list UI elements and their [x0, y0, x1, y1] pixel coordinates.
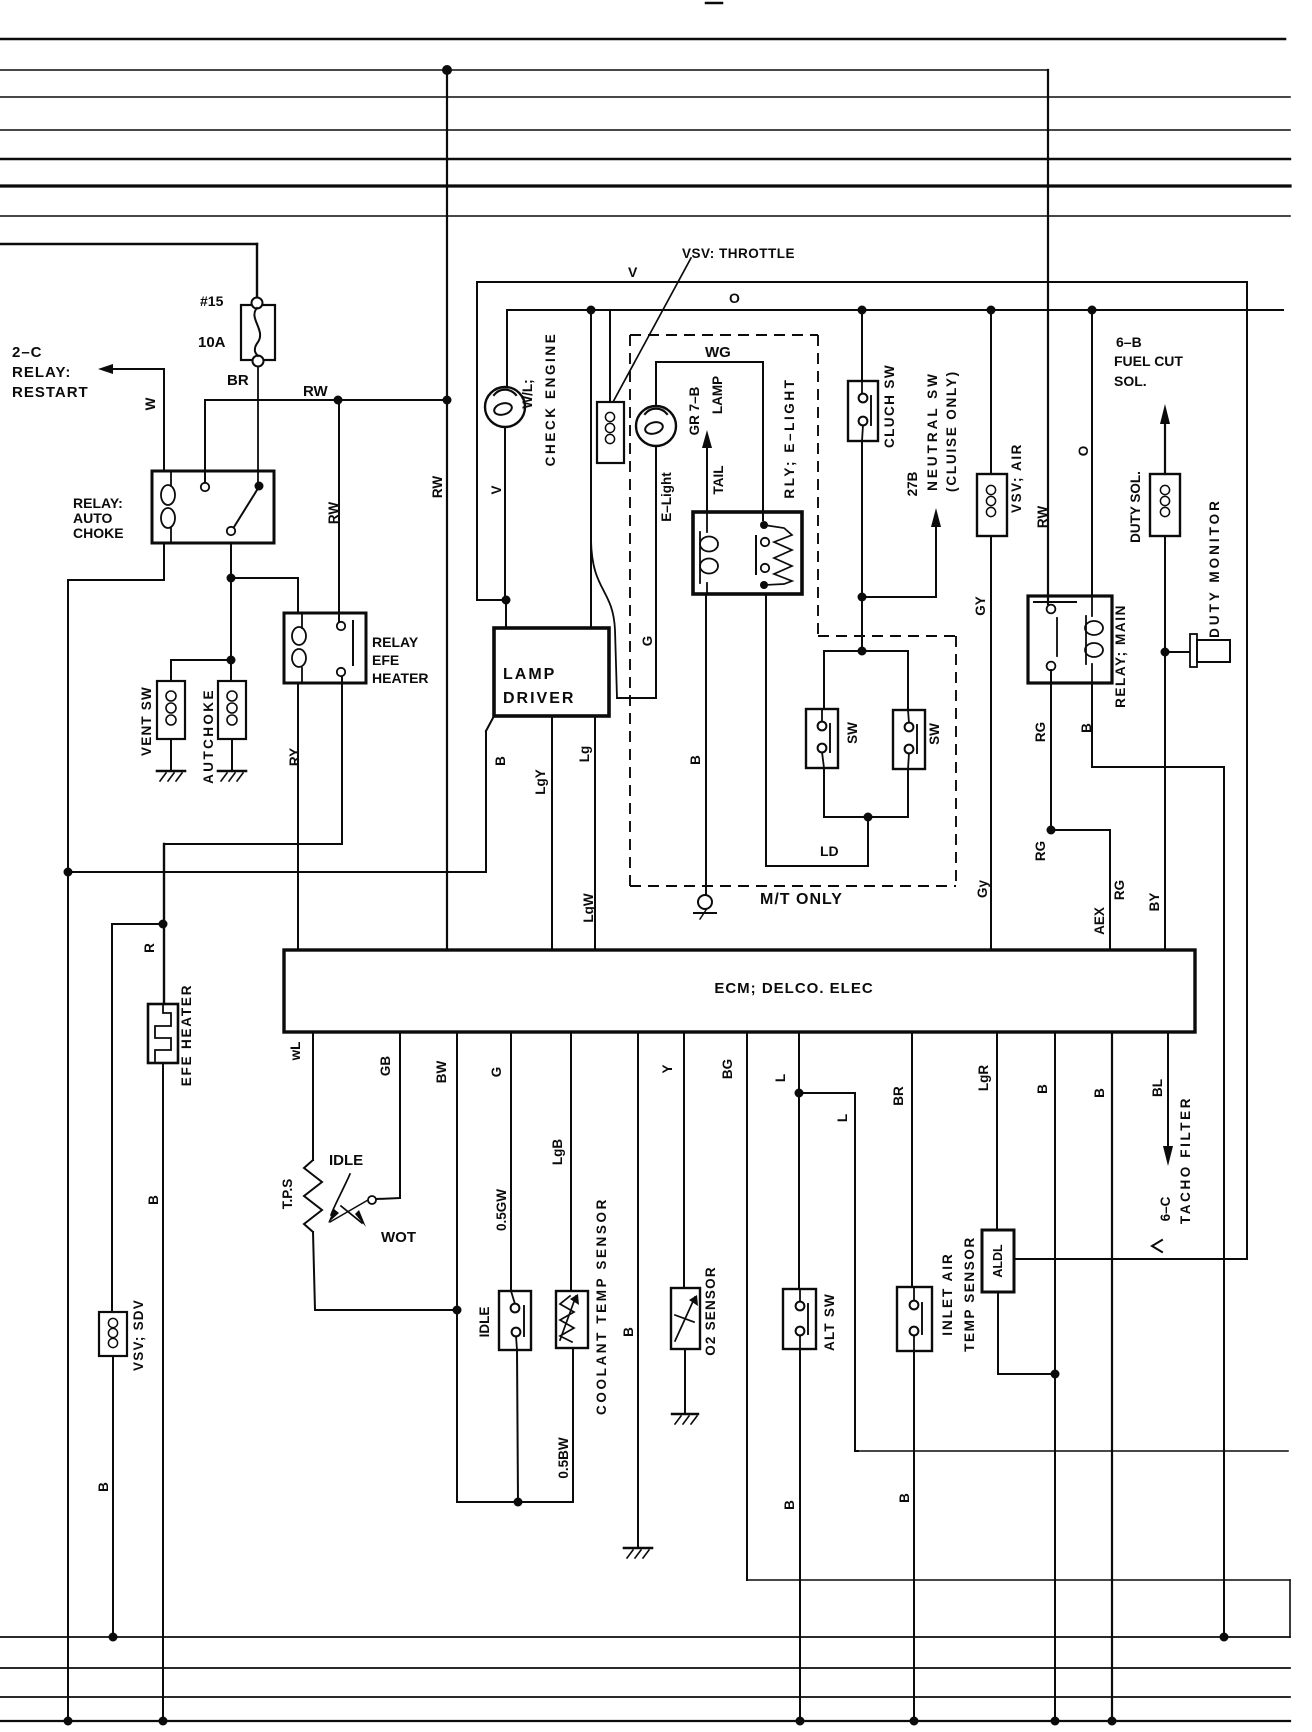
- svg-text:B: B: [493, 756, 508, 766]
- svg-text:VSV: THROTTLE: VSV: THROTTLE: [682, 246, 795, 261]
- svg-text:B: B: [621, 1327, 636, 1337]
- svg-text:B: B: [1092, 1088, 1107, 1098]
- svg-text:RY: RY: [287, 748, 302, 766]
- svg-text:RW: RW: [1035, 506, 1050, 529]
- svg-text:6–B: 6–B: [1116, 334, 1142, 350]
- svg-text:RELAY; MAIN: RELAY; MAIN: [1113, 604, 1128, 708]
- svg-text:INLET AIR: INLET AIR: [940, 1252, 955, 1336]
- svg-text:BR: BR: [891, 1086, 906, 1106]
- svg-text:WG: WG: [705, 344, 731, 361]
- svg-text:RG: RG: [1033, 722, 1048, 742]
- svg-text:0.5BW: 0.5BW: [556, 1437, 571, 1479]
- svg-text:RLY; E–LIGHT: RLY; E–LIGHT: [782, 377, 797, 498]
- svg-text:LgW: LgW: [581, 893, 596, 922]
- svg-text:SOL.: SOL.: [1114, 373, 1147, 389]
- svg-text:wL: wL: [288, 1042, 303, 1062]
- svg-text:BW: BW: [434, 1061, 449, 1084]
- svg-text:B: B: [782, 1500, 797, 1510]
- svg-text:L: L: [835, 1114, 850, 1122]
- svg-text:L: L: [773, 1074, 788, 1082]
- svg-text:EFE: EFE: [372, 652, 399, 668]
- svg-text:RW: RW: [430, 476, 445, 499]
- svg-text:O2 SENSOR: O2 SENSOR: [703, 1266, 718, 1356]
- svg-text:SW: SW: [927, 723, 942, 745]
- svg-text:VSV; SDV: VSV; SDV: [131, 1299, 146, 1371]
- svg-text:10A: 10A: [198, 334, 226, 351]
- svg-text:GR 7–B: GR 7–B: [687, 386, 702, 435]
- svg-text:TAIL: TAIL: [711, 466, 726, 495]
- svg-text:6–C: 6–C: [1158, 1196, 1173, 1221]
- svg-text:27B: 27B: [905, 471, 920, 496]
- svg-text:DRIVER: DRIVER: [503, 690, 575, 707]
- svg-text:DUTY MONITOR: DUTY MONITOR: [1207, 498, 1222, 638]
- svg-text:RG: RG: [1112, 880, 1127, 900]
- svg-text:ECM; DELCO. ELEC: ECM; DELCO. ELEC: [714, 980, 873, 997]
- svg-text:LD: LD: [820, 843, 839, 859]
- svg-text:T.P.S: T.P.S: [280, 1179, 295, 1210]
- svg-text:LAMP: LAMP: [710, 376, 725, 414]
- svg-text:LgR: LgR: [976, 1065, 991, 1091]
- svg-text:E–Light: E–Light: [659, 472, 674, 522]
- svg-text:O: O: [1076, 446, 1091, 457]
- svg-text:GB: GB: [378, 1056, 393, 1077]
- svg-text:V: V: [628, 264, 638, 280]
- svg-text:NEUTRAL SW: NEUTRAL SW: [925, 371, 940, 491]
- svg-text:BR: BR: [227, 372, 249, 389]
- svg-text:M/T ONLY: M/T ONLY: [760, 891, 843, 908]
- svg-text:G: G: [489, 1067, 504, 1078]
- svg-text:G: G: [640, 636, 655, 647]
- svg-text:BY: BY: [1147, 893, 1162, 912]
- svg-text:Y: Y: [660, 1064, 675, 1073]
- svg-text:HEATER: HEATER: [372, 670, 429, 686]
- svg-text:VSV; AIR: VSV; AIR: [1009, 443, 1024, 513]
- svg-text:2–C: 2–C: [12, 344, 43, 361]
- svg-text:CHECK ENGINE: CHECK ENGINE: [543, 332, 558, 467]
- svg-text:AUTCHOKE: AUTCHOKE: [201, 688, 216, 784]
- svg-text:BG: BG: [720, 1059, 735, 1079]
- svg-text:LgY: LgY: [533, 769, 548, 795]
- svg-text:WOT: WOT: [381, 1229, 416, 1246]
- svg-text:SW: SW: [845, 722, 860, 744]
- svg-text:DUTY SOL.: DUTY SOL.: [1128, 471, 1143, 543]
- svg-text:RG: RG: [1033, 841, 1048, 861]
- svg-text:ALT SW: ALT SW: [822, 1293, 837, 1351]
- svg-text:IDLE: IDLE: [477, 1307, 492, 1338]
- svg-text:TEMP SENSOR: TEMP SENSOR: [962, 1236, 977, 1352]
- svg-text:0.5GW: 0.5GW: [494, 1189, 509, 1231]
- svg-text:W: W: [143, 397, 158, 410]
- svg-text:RESTART: RESTART: [12, 384, 89, 401]
- svg-text:LgB: LgB: [550, 1139, 565, 1165]
- svg-text:B: B: [688, 755, 703, 765]
- svg-text:R: R: [142, 943, 157, 953]
- svg-text:AUTO: AUTO: [73, 510, 113, 526]
- svg-text:VENT SW: VENT SW: [139, 686, 154, 756]
- svg-text:Gy: Gy: [975, 880, 990, 899]
- svg-text:GY: GY: [973, 596, 988, 616]
- svg-text:CLUCH SW: CLUCH SW: [882, 364, 897, 448]
- svg-text:B: B: [146, 1195, 161, 1205]
- svg-text:COOLANT TEMP SENSOR: COOLANT TEMP SENSOR: [594, 1197, 609, 1415]
- svg-text:B: B: [897, 1493, 912, 1503]
- svg-text:FUEL CUT: FUEL CUT: [1114, 353, 1183, 369]
- svg-text:B: B: [1079, 723, 1094, 733]
- svg-text:ALDL: ALDL: [991, 1244, 1005, 1278]
- svg-text:TACHO FILTER: TACHO FILTER: [1178, 1096, 1193, 1224]
- svg-text:#15: #15: [200, 293, 224, 309]
- svg-text:RW: RW: [303, 383, 329, 400]
- svg-text:RELAY:: RELAY:: [12, 364, 71, 381]
- svg-text:Lg: Lg: [577, 746, 592, 763]
- svg-text:EFE HEATER: EFE HEATER: [179, 984, 194, 1087]
- svg-text:(CLUISE ONLY): (CLUISE ONLY): [944, 370, 959, 492]
- svg-text:AEX: AEX: [1092, 907, 1107, 935]
- svg-text:W/L;: W/L;: [520, 379, 535, 408]
- svg-text:LAMP: LAMP: [503, 666, 556, 683]
- svg-text:B: B: [1035, 1084, 1050, 1094]
- svg-text:RELAY: RELAY: [372, 634, 419, 650]
- svg-text:BL: BL: [1150, 1079, 1165, 1097]
- svg-text:IDLE: IDLE: [329, 1152, 363, 1169]
- svg-text:V: V: [489, 485, 504, 494]
- svg-text:CHOKE: CHOKE: [73, 525, 124, 541]
- svg-text:RW: RW: [326, 502, 341, 525]
- svg-text:RELAY:: RELAY:: [73, 495, 123, 511]
- svg-text:O: O: [729, 290, 740, 306]
- svg-text:B: B: [96, 1482, 111, 1492]
